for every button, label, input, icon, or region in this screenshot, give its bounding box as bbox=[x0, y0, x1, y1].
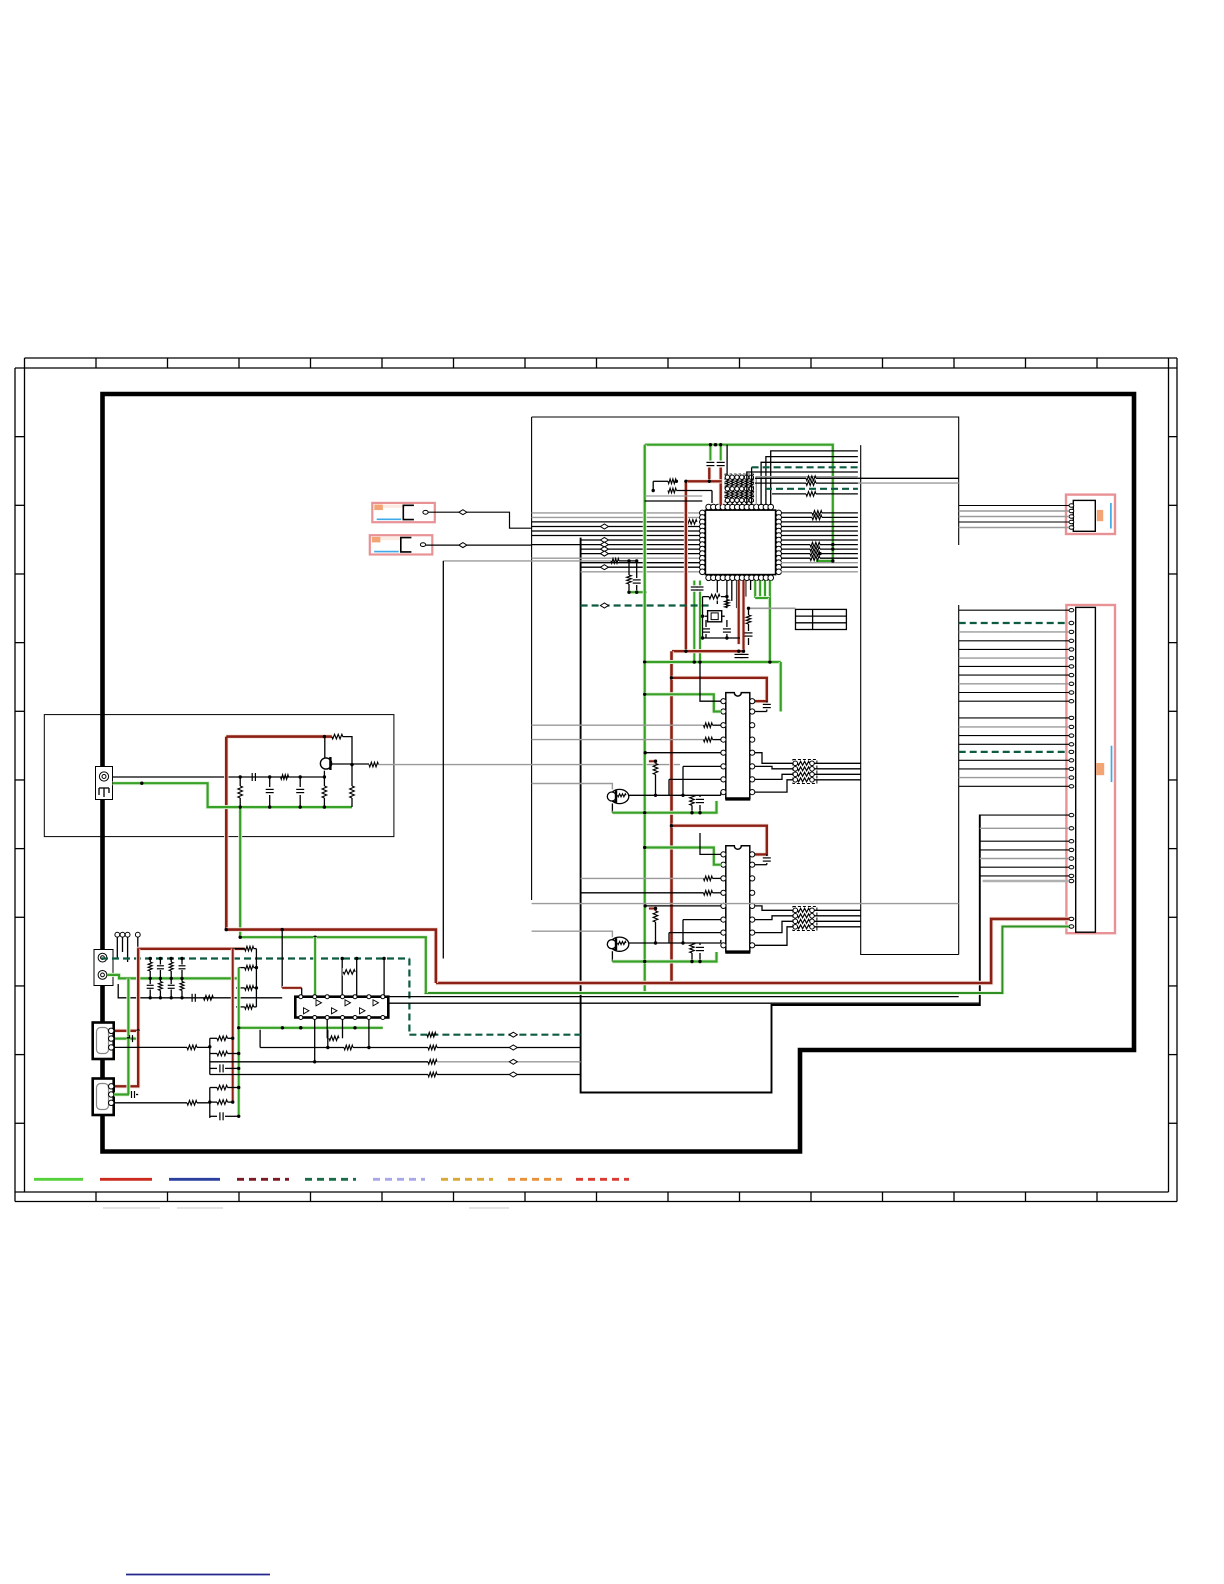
resistor R610 bbox=[687, 518, 699, 525]
wire green jack feed bbox=[128, 978, 136, 1038]
digital section box outline bbox=[532, 417, 959, 955]
wire DIP2 pin6 bbox=[683, 919, 721, 921]
wire red V+ front-end bbox=[226, 737, 331, 930]
jack J101 optical pickup bbox=[96, 767, 113, 800]
wire grey long mid bbox=[443, 560, 611, 562]
wire Q601 out bbox=[629, 794, 721, 796]
wire red Q602 bias bbox=[649, 909, 656, 912]
resistor R606 bbox=[668, 488, 676, 493]
wire CN601 to bus bbox=[428, 512, 531, 528]
capacitor C613 bbox=[697, 586, 704, 588]
capacitor C622 bbox=[748, 624, 750, 631]
wire DIP1 pin6 bbox=[683, 765, 721, 767]
junction dots front-end bbox=[323, 775, 326, 778]
wire DIP1 to RN602 bbox=[755, 753, 793, 792]
wire J104 out bbox=[114, 1102, 187, 1104]
resistor R614 bbox=[611, 559, 619, 564]
wire DIP2 pin5 bbox=[645, 905, 721, 907]
signal arrow line1 bbox=[509, 1045, 517, 1050]
signal arrow CN601 bbox=[459, 510, 467, 515]
wire teal main bus bbox=[101, 957, 409, 959]
wire grey to table bbox=[747, 607, 795, 609]
junction dots osc bbox=[725, 595, 728, 598]
digital section inner channel line bbox=[861, 445, 959, 954]
wire green GND DIP2 bbox=[612, 952, 716, 962]
wire red lower rail bbox=[137, 947, 245, 951]
wire green J104 feed bbox=[114, 1039, 129, 1095]
wire grey lower rows bbox=[532, 903, 959, 905]
wire DSP right pin lines bbox=[781, 511, 858, 572]
signal arrow line3 bbox=[509, 1072, 517, 1077]
resistor R643 bbox=[653, 911, 658, 922]
wire opamp bottom taps bbox=[314, 1020, 316, 1062]
resistor network RN601 bbox=[725, 474, 754, 505]
wire CN604 harness group2 bbox=[959, 718, 1069, 786]
IC603 left pins bbox=[721, 852, 726, 948]
divider resistors column bbox=[233, 946, 258, 1009]
capacitor C630 bbox=[735, 653, 743, 655]
connector CN602 bbox=[370, 535, 433, 554]
resistor R641 bbox=[704, 875, 714, 883]
resistor R104 bbox=[239, 777, 241, 786]
wire Q602 base bbox=[532, 931, 613, 937]
resistor R642 bbox=[704, 889, 714, 897]
capacitor C621 bbox=[726, 620, 728, 627]
wire red to CN604 bbox=[436, 919, 1069, 983]
resistor R650 bbox=[427, 1032, 436, 1037]
signal arrow CN602 bbox=[459, 543, 467, 548]
wire CN603 harness bbox=[959, 506, 1069, 528]
capacitor C611 bbox=[636, 561, 638, 578]
wire green spine bbox=[643, 445, 647, 993]
jack J103 phones bbox=[93, 1023, 114, 1060]
wire grey DIP2 rows bbox=[581, 877, 704, 879]
wire teal SDATA top bbox=[751, 467, 753, 505]
servo section boundary wire bbox=[581, 538, 980, 1093]
wire Q601 base bbox=[532, 784, 613, 790]
IC603 motor driver DIP bbox=[725, 846, 750, 952]
junction dots green right bbox=[831, 543, 834, 546]
wire grey front-end out bbox=[378, 764, 680, 766]
resistor R631 bbox=[704, 721, 714, 729]
sheet border frame bbox=[15, 358, 1177, 1202]
wire DIP2 to RN603 bbox=[755, 906, 793, 945]
wire red xtal drops bbox=[737, 581, 741, 645]
wire green cap feeds bbox=[709, 445, 713, 461]
op-amp U1 placeholder none bbox=[0, 0, 1, 1]
wire red osc feeds bbox=[709, 468, 720, 506]
IC603 right pins bbox=[750, 852, 755, 948]
wire red Q601 bias bbox=[649, 761, 656, 763]
resistor R611 bbox=[755, 477, 806, 479]
resistor R605 bbox=[653, 480, 668, 482]
resistor R615 bbox=[628, 561, 630, 575]
wire red audio L bbox=[231, 949, 235, 1103]
wire green DIP2 in bbox=[645, 848, 721, 865]
IC601 top pins bbox=[706, 504, 774, 510]
connector CN601 bbox=[372, 503, 435, 522]
wire teal drop bbox=[408, 959, 410, 1035]
network N2 bbox=[210, 1085, 241, 1120]
connector CN603 bbox=[1066, 495, 1115, 534]
wire red opamp stub bbox=[282, 986, 302, 990]
wire DSP bottom black drops bbox=[717, 581, 750, 609]
capacitor C606 bbox=[766, 701, 768, 702]
wire green front-end ground bbox=[113, 783, 353, 807]
wire audio line1 bbox=[260, 1047, 344, 1049]
wire red source drop bbox=[226, 930, 436, 983]
wire teal mid bbox=[581, 604, 711, 606]
wire Q602 out bbox=[629, 942, 721, 944]
IC602 servo driver DIP bbox=[725, 693, 750, 799]
wire green DAC drops bbox=[755, 581, 770, 663]
wire vertical link left bbox=[442, 561, 444, 959]
resistor R111 bbox=[204, 996, 214, 1001]
wire green opamp feed bbox=[313, 937, 317, 996]
wire CN602 to bus bbox=[426, 544, 532, 546]
test point circles bbox=[115, 932, 140, 962]
wire collector Q101 bbox=[325, 737, 369, 764]
signal arrow teal mid bbox=[600, 603, 608, 608]
wire RN601 feed bbox=[726, 445, 728, 475]
wire red top rail bbox=[686, 479, 722, 483]
wire channel crossing pair bbox=[858, 477, 959, 479]
wire CN604 harness group1 bbox=[959, 610, 1069, 701]
wire green GND DIP1 bbox=[612, 801, 716, 813]
wire green rail 662 bbox=[644, 660, 781, 664]
wire green J103 bbox=[115, 1037, 129, 1041]
wire black link bbox=[281, 930, 283, 988]
wire green jack return bbox=[107, 975, 240, 979]
wire red drop to crystal bbox=[684, 481, 688, 651]
resistor R113 bbox=[187, 1101, 197, 1106]
wire black bottom bus bbox=[118, 984, 282, 998]
resistor R620 bbox=[709, 593, 721, 601]
resistor R613 bbox=[772, 493, 806, 495]
wire teal second bbox=[765, 488, 858, 490]
transistor Q601 bbox=[610, 789, 629, 803]
wire bus upper left pair bbox=[645, 495, 703, 497]
wire green source drop bbox=[240, 937, 426, 993]
wire green right drop DIP1 bbox=[779, 662, 783, 712]
wire green ground drop bbox=[238, 807, 242, 937]
wire red jack feed bbox=[115, 949, 138, 1031]
network N1 bbox=[210, 1036, 241, 1072]
junction dots rails bbox=[643, 660, 646, 663]
capacitor C620 bbox=[705, 620, 707, 627]
resistor R612 bbox=[755, 482, 806, 484]
wire green supply loop bbox=[645, 445, 833, 561]
wire servo spine branch extra bbox=[0, 0, 1, 1]
resistor R622 bbox=[748, 608, 750, 615]
resistor network RN603 bbox=[793, 907, 817, 931]
wire RN603 outputs bbox=[814, 910, 860, 927]
signal arrows bus bbox=[600, 524, 608, 529]
IC602 right pins bbox=[750, 699, 755, 795]
wire opamp out right bbox=[388, 996, 958, 998]
footer link underline bbox=[126, 1574, 270, 1576]
junction dots jack feeds bbox=[137, 1029, 140, 1032]
junction dots green top bbox=[709, 443, 712, 446]
wire osc rail bbox=[703, 597, 727, 629]
wire DSP top staircase bbox=[747, 451, 858, 505]
wire red DIP1 feed bbox=[672, 678, 767, 701]
wire green left drops bbox=[692, 581, 696, 586]
capacitor C112 bbox=[131, 1091, 133, 1098]
wire teal lower bus bbox=[409, 1034, 580, 1036]
connector CN604 bbox=[1066, 605, 1115, 933]
resistor R644 bbox=[690, 943, 695, 953]
IC601 left pins bbox=[700, 510, 706, 574]
crystal X601 bbox=[705, 611, 725, 622]
capacitor C111 bbox=[129, 1035, 131, 1042]
wire RN602 outputs bbox=[814, 763, 860, 780]
wire CN604 harness group3 bbox=[980, 815, 1069, 876]
wire green to CN604 bbox=[424, 927, 1069, 994]
wire audio line3 bbox=[210, 1074, 428, 1076]
wire DIP2 pin7 bbox=[669, 932, 721, 934]
resistor R106 bbox=[351, 765, 353, 786]
capacitor C103 bbox=[299, 777, 301, 787]
transistor Q602 bbox=[610, 937, 629, 951]
junction dots DIP1 bbox=[643, 693, 646, 696]
wire J103 out bbox=[114, 1046, 187, 1048]
resistor R634 bbox=[690, 795, 695, 805]
wire red DIP2 feed bbox=[672, 826, 767, 855]
wire Q601 emitter bbox=[611, 804, 613, 813]
ladder components row1 bbox=[148, 957, 185, 980]
resistor R105 bbox=[323, 777, 325, 786]
IC602 left pins bbox=[721, 699, 726, 795]
resistor R103 bbox=[369, 762, 378, 767]
connector CN604 pins bbox=[1069, 609, 1074, 929]
resistor R633 bbox=[653, 764, 658, 775]
IC601 bottom pins bbox=[706, 575, 774, 581]
footer faint marks bbox=[103, 1207, 160, 1209]
wire teal taps bbox=[341, 959, 343, 997]
wire green audio R bbox=[237, 968, 241, 1117]
signal table bbox=[796, 609, 847, 629]
wire J104 net bbox=[197, 1088, 210, 1119]
wire J103 net bbox=[197, 1038, 210, 1074]
connector CN603 pins bbox=[1069, 504, 1074, 529]
legend line samples bbox=[34, 1178, 629, 1181]
wire DIP1 pin5 bbox=[645, 752, 721, 754]
wire Q602 emitter bbox=[611, 951, 613, 961]
wire R605 left bbox=[652, 481, 654, 490]
wire grey DIP1 rows bbox=[532, 724, 704, 726]
resistor network RN602 bbox=[793, 760, 817, 784]
wire J101 signal bbox=[113, 776, 325, 778]
wire grey thick CN604 bbox=[983, 880, 1069, 883]
capacitor C101 bbox=[251, 773, 253, 781]
jack J104 phones bbox=[93, 1079, 114, 1116]
capacitor C605 bbox=[717, 461, 725, 463]
IC604 op-amp array bbox=[295, 995, 388, 1020]
main board boundary (thick outline) bbox=[103, 394, 1135, 1152]
IC601 DSP QFP body bbox=[705, 510, 775, 574]
wire DIP1 pin1 bbox=[700, 662, 721, 701]
capacitor C102 bbox=[269, 777, 271, 787]
signal arrow line2 bbox=[509, 1059, 517, 1064]
resistor R102 bbox=[332, 734, 343, 739]
resistor R632 bbox=[704, 736, 714, 744]
front-end block box outline bbox=[44, 715, 394, 837]
wire R614 out bbox=[619, 560, 637, 562]
wire audio line2 bbox=[210, 1061, 428, 1063]
wire bus to IC601 left pins bbox=[532, 513, 703, 572]
wire green opamp ground bbox=[239, 1026, 383, 1030]
capacitor C607 bbox=[699, 795, 701, 797]
capacitor C110 bbox=[191, 994, 193, 1002]
wire osc ground bbox=[703, 629, 741, 638]
ladder components row2 bbox=[147, 978, 184, 999]
wire red J104 feed bbox=[115, 1031, 138, 1087]
capacitor C609 bbox=[699, 943, 701, 945]
transistor Q101 bbox=[320, 758, 331, 769]
junction dots sources bbox=[225, 928, 228, 931]
resistor R101 bbox=[281, 775, 289, 780]
wire green DIP1 in bbox=[645, 694, 721, 711]
signal arrow teal lower bbox=[509, 1032, 517, 1037]
wire red spine bbox=[669, 651, 673, 983]
junction dots DIP2 bbox=[643, 846, 646, 849]
resistor R112 bbox=[187, 1045, 197, 1050]
wire DIP1 pin7 bbox=[669, 778, 721, 780]
resistor R621 bbox=[725, 600, 730, 608]
wire green stub bbox=[629, 590, 645, 594]
capacitor C612 bbox=[691, 586, 698, 588]
wire Q101 base bbox=[323, 771, 325, 777]
capacitor C608 bbox=[766, 854, 768, 856]
IC601 right pins bbox=[776, 510, 782, 574]
wire red xtal rail bbox=[672, 649, 744, 653]
resistor R660 bbox=[343, 968, 355, 976]
jack J102 line-in bbox=[94, 950, 113, 986]
capacitor C604 bbox=[706, 461, 714, 463]
wire DIP2 pin1 bbox=[700, 833, 721, 854]
